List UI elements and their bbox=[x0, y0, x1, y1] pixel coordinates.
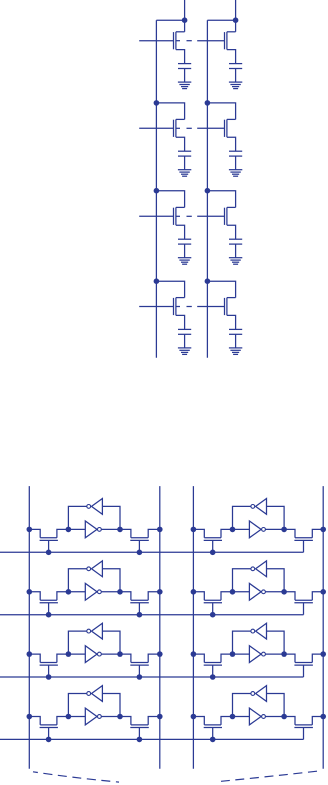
pass transistor QL row2 cell2 bbox=[204, 600, 222, 615]
wire rail-to-drain jog col1 row2 bbox=[156, 103, 184, 120]
wire nodeB-to-pass row1 cell1 bbox=[120, 529, 131, 537]
node rail junction col2 row3 bbox=[205, 188, 211, 194]
wire pass-to-nodeA row3 cell2 bbox=[221, 654, 233, 662]
inverter U22b (feedback) bbox=[251, 561, 267, 577]
pass transistor QL row1 cell1 bbox=[40, 538, 58, 553]
wordline WL2 dash (continuation) bbox=[187, 127, 192, 129]
node bitline junction left row4 cell2 bbox=[191, 714, 197, 720]
inverter U32a (forward) bbox=[233, 646, 285, 663]
pass transistor QR row4 cell2 bbox=[294, 725, 313, 740]
wordline WL1 dash (continuation) bbox=[187, 40, 192, 42]
bitline BL4 (SRAM section) bbox=[322, 486, 324, 769]
node gate-wordline junction left row1 cell2 bbox=[210, 550, 216, 556]
access transistor Q32 bbox=[197, 207, 235, 225]
inverter U22a (forward) bbox=[233, 583, 285, 600]
node A row3 cell2 bbox=[230, 651, 236, 657]
wire source-to-cap col2 row1 bbox=[227, 50, 236, 64]
node B row1 cell1 bbox=[117, 527, 123, 533]
wire column rail 1 bbox=[155, 20, 157, 358]
node gate-wordline junction left row4 cell1 bbox=[46, 737, 52, 743]
node gate-wordline junction left row3 cell2 bbox=[210, 674, 216, 680]
wire pass-to-nodeA row1 cell2 bbox=[221, 529, 233, 537]
wordline WL2 (SRAM section) bbox=[0, 614, 304, 616]
wire pass-to-bitline row2 cell2 right bbox=[312, 592, 323, 600]
pass transistor QL row3 cell2 bbox=[204, 663, 222, 678]
wire pass-to-bitline row3 cell2 right bbox=[312, 654, 323, 662]
storage capacitor C11 bbox=[178, 64, 191, 69]
wire feedback left row2 cell1 bbox=[68, 569, 86, 592]
pass transistor QL row1 cell2 bbox=[204, 538, 222, 553]
node bitline junction right row3 cell2 bbox=[320, 651, 326, 657]
inverter U12b (feedback) bbox=[251, 499, 267, 515]
ground col2 row1 bbox=[229, 82, 242, 89]
wire pass-to-nodeA row4 cell1 bbox=[57, 717, 69, 725]
node B row2 cell2 bbox=[281, 589, 287, 595]
access transistor Q22 bbox=[197, 119, 235, 137]
wordline WL3 (SRAM section) bbox=[0, 676, 304, 678]
wire pass-to-bitline row4 cell1 right bbox=[148, 717, 160, 725]
ground col2 row3 bbox=[229, 258, 242, 265]
wire rail-to-bitline jog col1 row1 bbox=[156, 19, 184, 21]
node bitline junction right row2 cell1 bbox=[157, 589, 163, 595]
pass transistor QL row2 cell1 bbox=[40, 600, 58, 615]
node A row4 cell2 bbox=[230, 714, 236, 720]
storage capacitor C41 bbox=[178, 329, 191, 334]
wire bitline-to-pass row3 cell1 left bbox=[29, 654, 40, 662]
node bitline junction right row1 cell1 bbox=[157, 527, 163, 533]
wire feedback left row1 cell1 bbox=[68, 506, 86, 529]
dashed continuation arc left bbox=[33, 772, 119, 782]
wire rail-to-drain jog col2 row4 bbox=[207, 281, 235, 297]
wire pass-to-bitline row2 cell1 right bbox=[148, 592, 160, 600]
wire source-to-cap col1 row2 bbox=[176, 137, 185, 151]
pass transistor QL row4 cell1 bbox=[40, 725, 58, 740]
wire pass-to-nodeA row2 cell1 bbox=[57, 592, 69, 600]
node bitline junction left row3 cell1 bbox=[27, 651, 33, 657]
wire bitline-to-pass row4 cell2 left bbox=[193, 717, 204, 725]
wire nodeB-to-pass row4 cell1 bbox=[120, 717, 131, 725]
node bitline junction right row1 cell2 bbox=[320, 527, 326, 533]
node gate-wordline junction right row2 cell1 bbox=[137, 612, 143, 618]
access transistor Q42 bbox=[197, 298, 235, 316]
wire feedback right row1 cell1 bbox=[102, 506, 120, 529]
pass transistor QR row2 cell1 bbox=[130, 600, 149, 615]
wire feedback right row4 cell2 bbox=[267, 694, 285, 717]
wire feedback left row4 cell2 bbox=[233, 694, 251, 717]
wire pass-to-nodeA row3 cell1 bbox=[57, 654, 69, 662]
node bitline junction col1 row1 bbox=[182, 17, 188, 23]
wire bitline-to-pass row1 cell1 left bbox=[29, 529, 40, 537]
pass transistor QR row1 cell1 bbox=[130, 538, 149, 553]
node B row1 cell2 bbox=[281, 527, 287, 533]
wire bitline-to-pass row2 cell1 left bbox=[29, 592, 40, 600]
storage capacitor C12 bbox=[229, 64, 242, 69]
wire feedback right row3 cell2 bbox=[267, 631, 285, 654]
wire feedback right row1 cell2 bbox=[267, 506, 285, 529]
node gate-wordline junction left row3 cell1 bbox=[46, 674, 52, 680]
wire rail-to-drain jog col2 row3 bbox=[207, 191, 235, 208]
node rail junction col1 row3 bbox=[154, 188, 160, 194]
node gate-wordline junction right row1 cell1 bbox=[137, 550, 143, 556]
wire cap-to-ground col1 row2 bbox=[184, 156, 186, 170]
ground col1 row2 bbox=[178, 170, 191, 177]
wire feedback right row4 cell1 bbox=[102, 694, 120, 717]
wire source-to-cap col1 row1 bbox=[176, 50, 185, 64]
wire nodeB-to-pass row3 cell2 bbox=[284, 654, 295, 662]
node bitline junction left row2 cell1 bbox=[27, 589, 33, 595]
node bitline junction right row3 cell1 bbox=[157, 651, 163, 657]
pass transistor QR row3 cell1 bbox=[130, 663, 149, 678]
wire cap-to-ground col2 row1 bbox=[235, 69, 237, 83]
inverter U21a (forward) bbox=[68, 583, 120, 600]
node B row4 cell1 bbox=[117, 714, 123, 720]
inverter U42b (feedback) bbox=[251, 686, 267, 702]
node gate-wordline junction left row4 cell2 bbox=[210, 737, 216, 743]
node B row4 cell2 bbox=[281, 714, 287, 720]
wire bitline-to-pass row2 cell2 left bbox=[193, 592, 204, 600]
wire source-to-cap col2 row3 bbox=[227, 225, 236, 239]
bitline BL2 top segment bbox=[235, 0, 237, 32]
inverter U11b (feedback) bbox=[87, 499, 103, 515]
wire cap-to-ground col2 row2 bbox=[235, 156, 237, 170]
node rail junction col2 row4 bbox=[205, 278, 211, 284]
access transistor Q41 bbox=[139, 298, 184, 316]
node bitline junction left row2 cell2 bbox=[191, 589, 197, 595]
node A row2 cell2 bbox=[230, 589, 236, 595]
node bitline junction right row4 cell1 bbox=[157, 714, 163, 720]
wire cap-to-ground col2 row3 bbox=[235, 244, 237, 258]
wordline WL1 (SRAM section) bbox=[0, 551, 304, 553]
wire pass-to-nodeA row2 cell2 bbox=[221, 592, 233, 600]
wire rail-to-drain jog col1 row3 bbox=[156, 191, 184, 208]
node A row1 cell1 bbox=[66, 527, 72, 533]
pass transistor QL row3 cell1 bbox=[40, 663, 58, 678]
inverter U42a (forward) bbox=[233, 708, 285, 725]
wire feedback left row1 cell2 bbox=[233, 506, 251, 529]
wire source-to-cap col1 row3 bbox=[176, 225, 185, 239]
wire pass-to-bitline row3 cell1 right bbox=[148, 654, 160, 662]
bitline BL2 (SRAM section) bbox=[159, 486, 161, 769]
wire bitline-to-pass row1 cell2 left bbox=[193, 529, 204, 537]
ground col1 row3 bbox=[178, 258, 191, 265]
bitline BL1 (SRAM section) bbox=[28, 486, 30, 769]
wire cap-to-ground col1 row1 bbox=[184, 69, 186, 83]
pass transistor QR row1 cell2 bbox=[294, 538, 313, 553]
node rail junction col1 row4 bbox=[154, 278, 160, 284]
node A row4 cell1 bbox=[66, 714, 72, 720]
wire nodeB-to-pass row3 cell1 bbox=[120, 654, 131, 662]
inverter U31b (feedback) bbox=[87, 623, 103, 639]
wire feedback left row4 cell1 bbox=[68, 694, 86, 717]
wordline WL4 dash (continuation) bbox=[187, 306, 192, 308]
storage capacitor C31 bbox=[178, 239, 191, 244]
pass transistor QR row3 cell2 bbox=[294, 663, 313, 678]
wire pass-to-bitline row1 cell2 right bbox=[312, 529, 323, 537]
node bitline junction right row4 cell2 bbox=[320, 714, 326, 720]
node bitline junction right row2 cell2 bbox=[320, 589, 326, 595]
node gate-wordline junction left row2 cell2 bbox=[210, 612, 216, 618]
wire cap-to-ground col2 row4 bbox=[235, 334, 237, 348]
pass transistor QL row4 cell2 bbox=[204, 725, 222, 740]
wire nodeB-to-pass row2 cell1 bbox=[120, 592, 131, 600]
inverter U21b (feedback) bbox=[87, 561, 103, 577]
access transistor Q12 bbox=[197, 32, 235, 50]
ground col2 row4 bbox=[229, 348, 242, 355]
access transistor Q21 bbox=[139, 119, 184, 137]
wire rail-to-drain jog col2 row2 bbox=[207, 103, 235, 120]
node bitline junction left row4 cell1 bbox=[27, 714, 33, 720]
storage capacitor C21 bbox=[178, 151, 191, 156]
wire feedback left row2 cell2 bbox=[233, 569, 251, 592]
wire source-to-cap col2 row2 bbox=[227, 137, 236, 151]
wire bitline-to-pass row4 cell1 left bbox=[29, 717, 40, 725]
ground col1 row4 bbox=[178, 348, 191, 355]
wordline WL3 dash (continuation) bbox=[187, 215, 192, 217]
node gate-wordline junction right row3 cell1 bbox=[137, 674, 143, 680]
node B row2 cell1 bbox=[117, 589, 123, 595]
wire feedback left row3 cell2 bbox=[233, 631, 251, 654]
node A row1 cell2 bbox=[230, 527, 236, 533]
node B row3 cell2 bbox=[281, 651, 287, 657]
inverter U41b (feedback) bbox=[87, 686, 103, 702]
wire rail-to-bitline jog col2 row1 bbox=[207, 19, 235, 21]
storage capacitor C42 bbox=[229, 329, 242, 334]
inverter U11a (forward) bbox=[68, 521, 120, 538]
ground col2 row2 bbox=[229, 170, 242, 177]
inverter U32b (feedback) bbox=[251, 623, 267, 639]
wire pass-to-bitline row1 cell1 right bbox=[148, 529, 160, 537]
wire nodeB-to-pass row1 cell2 bbox=[284, 529, 295, 537]
wire nodeB-to-pass row2 cell2 bbox=[284, 592, 295, 600]
pass transistor QR row2 cell2 bbox=[294, 600, 313, 615]
wire cap-to-ground col1 row4 bbox=[184, 334, 186, 348]
inverter U12a (forward) bbox=[233, 521, 285, 538]
storage capacitor C32 bbox=[229, 239, 242, 244]
access transistor Q31 bbox=[139, 207, 184, 225]
wire source-to-cap col2 row4 bbox=[227, 315, 236, 329]
wire rail-to-drain jog col1 row4 bbox=[156, 281, 184, 297]
node B row3 cell1 bbox=[117, 651, 123, 657]
node rail junction col2 row2 bbox=[205, 100, 211, 106]
wire feedback left row3 cell1 bbox=[68, 631, 86, 654]
wire feedback right row2 cell2 bbox=[267, 569, 285, 592]
wordline WL4 (SRAM section) bbox=[0, 738, 304, 740]
inverter U41a (forward) bbox=[68, 708, 120, 725]
wire column rail 2 bbox=[206, 20, 208, 358]
wire feedback right row2 cell1 bbox=[102, 569, 120, 592]
node gate-wordline junction left row1 cell1 bbox=[46, 550, 52, 556]
access transistor Q11 bbox=[139, 32, 184, 50]
node bitline junction left row1 cell1 bbox=[27, 527, 33, 533]
wire feedback right row3 cell1 bbox=[102, 631, 120, 654]
node gate-wordline junction right row4 cell1 bbox=[137, 737, 143, 743]
pass transistor QR row4 cell1 bbox=[130, 725, 149, 740]
wire pass-to-nodeA row1 cell1 bbox=[57, 529, 69, 537]
wire cap-to-ground col1 row3 bbox=[184, 244, 186, 258]
bitline BL1 top segment bbox=[184, 0, 186, 32]
node bitline junction left row3 cell2 bbox=[191, 651, 197, 657]
wire source-to-cap col1 row4 bbox=[176, 315, 185, 329]
wire pass-to-bitline row4 cell2 right bbox=[312, 717, 323, 725]
node rail junction col1 row2 bbox=[154, 100, 160, 106]
storage capacitor C22 bbox=[229, 151, 242, 156]
ground col1 row1 bbox=[178, 82, 191, 89]
wire pass-to-nodeA row4 cell2 bbox=[221, 717, 233, 725]
node bitline junction left row1 cell2 bbox=[191, 527, 197, 533]
node bitline junction col2 row1 bbox=[233, 17, 239, 23]
dashed continuation arc right bbox=[221, 771, 317, 781]
inverter U31a (forward) bbox=[68, 646, 120, 663]
wire bitline-to-pass row3 cell2 left bbox=[193, 654, 204, 662]
bitline BL3 (SRAM section) bbox=[192, 486, 194, 769]
node A row2 cell1 bbox=[66, 589, 72, 595]
node A row3 cell1 bbox=[66, 651, 72, 657]
wire nodeB-to-pass row4 cell2 bbox=[284, 717, 295, 725]
node gate-wordline junction left row2 cell1 bbox=[46, 612, 52, 618]
